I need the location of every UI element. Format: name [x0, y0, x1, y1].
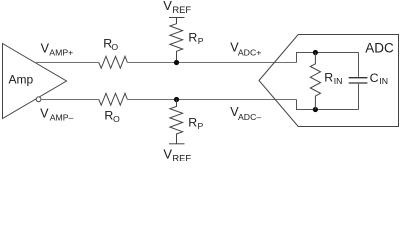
wire bottom: bubble to RO — [41, 99, 99, 101]
power VREF (top) — [163, 0, 191, 18]
node VADC- label — [230, 105, 261, 122]
svg-text:ADC+: ADC+ — [238, 47, 261, 57]
capacitor CIN — [349, 53, 388, 110]
svg-text:P: P — [198, 36, 204, 46]
resistor RP (bottom) — [170, 100, 204, 144]
node VAMP- label — [40, 107, 73, 123]
svg-text:V: V — [41, 41, 50, 55]
node junction RIN top — [313, 50, 318, 55]
node junction RIN bottom — [313, 107, 318, 112]
op-amp U1 Amp triangle — [3, 44, 67, 119]
wire top: RO to ADC entry — [127, 62, 296, 64]
svg-text:Amp: Amp — [9, 72, 34, 86]
wire bottom: RO to ADC entry — [127, 99, 296, 101]
svg-text:AMP–: AMP– — [50, 113, 74, 123]
svg-text:O: O — [111, 42, 118, 52]
svg-text:REF: REF — [172, 4, 191, 15]
wire: top entry jog into top rail — [297, 53, 359, 63]
wire: bottom entry jog into bottom rail — [297, 100, 359, 110]
resistor RP (top) — [170, 18, 204, 63]
output bubble (inverting) — [36, 97, 41, 102]
wire top: amp output to RO — [34, 62, 99, 64]
svg-text:IN: IN — [334, 76, 343, 86]
node VAMP+ label — [41, 41, 74, 57]
svg-text:V: V — [40, 107, 49, 121]
svg-text:R: R — [188, 115, 197, 129]
svg-text:R: R — [188, 31, 197, 45]
svg-text:V: V — [163, 146, 172, 161]
node junction bottom (RP to bottom wire) — [174, 97, 179, 102]
svg-text:ADC: ADC — [365, 40, 394, 55]
svg-text:V: V — [163, 0, 172, 13]
svg-text:ADC–: ADC– — [238, 112, 261, 122]
svg-text:C: C — [370, 71, 379, 85]
svg-text:IN: IN — [379, 76, 388, 86]
node junction top (RP to top wire) — [174, 60, 179, 65]
resistor RIN — [310, 53, 342, 110]
power VREF (bottom) — [163, 144, 191, 164]
resistor RO (bottom) — [99, 93, 128, 124]
svg-text:AMP+: AMP+ — [49, 47, 73, 57]
svg-text:P: P — [198, 121, 204, 131]
resistor RO (top) — [99, 37, 128, 68]
ADC block enclosure — [259, 35, 399, 127]
svg-text:R: R — [324, 71, 333, 85]
svg-text:O: O — [113, 114, 120, 124]
node VADC+ label — [230, 41, 261, 58]
svg-text:REF: REF — [172, 152, 191, 161]
